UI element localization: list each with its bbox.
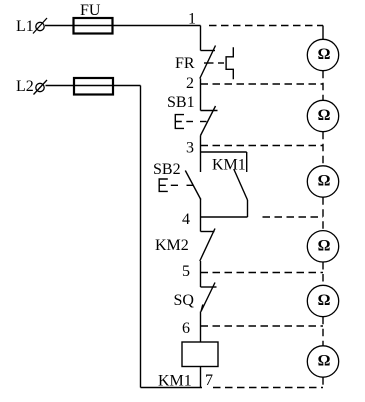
wire lamp6 to node7 dashed [322, 377, 324, 387]
wire lamp5 to lamp6 dashed [322, 317, 324, 346]
svg-text:5: 5 [182, 263, 190, 280]
wire SQ to coil [200, 312, 202, 343]
svg-text:Ω: Ω [318, 292, 331, 309]
svg-text:SQ: SQ [174, 292, 195, 309]
wire left bus vertical [140, 86, 142, 388]
svg-text:Ω: Ω [318, 46, 331, 63]
indicator lamp 4 [307, 231, 338, 262]
wire node3 dashed to right column [201, 145, 324, 147]
wire KM1 branch top [201, 152, 247, 172]
wire node4 dashed to right column [263, 216, 324, 218]
svg-text:7: 7 [205, 372, 213, 389]
svg-text:Ω: Ω [318, 353, 331, 370]
contact KM1 (NO auxiliary) [234, 170, 248, 218]
svg-text:Ω: Ω [318, 237, 331, 254]
wire lamp1 to lamp2 dashed [322, 71, 324, 101]
wire FR to SB1 [200, 79, 202, 111]
svg-text:2: 2 [186, 75, 194, 92]
svg-text:FU: FU [80, 2, 101, 19]
wire lamp3 to lamp4 dashed [322, 197, 324, 230]
wire node4 junction [201, 216, 248, 218]
terminal L2 [34, 80, 48, 95]
wire node6 dashed to right column [201, 325, 324, 327]
svg-text:SB2: SB2 [153, 161, 181, 178]
indicator lamp 1 [307, 39, 338, 70]
indicator lamp 3 [307, 166, 338, 197]
terminal L1 [33, 18, 47, 34]
wire bottom return [141, 387, 203, 389]
wire SB2 to node4 [200, 199, 202, 232]
wire node5 dashed to right column [201, 272, 324, 274]
svg-text:1: 1 [188, 11, 196, 28]
wire node2 dashed to right column [201, 83, 324, 85]
svg-text:4: 4 [182, 211, 190, 228]
wire node1 dashed to right column [209, 25, 323, 27]
contact FR (NC thermal relay contact) [200, 46, 234, 80]
wire right column top corner [322, 26, 324, 40]
svg-text:L1: L1 [16, 18, 34, 35]
indicator lamp 5 [307, 285, 338, 316]
wire L2 to left bus (through fuse) [46, 85, 141, 87]
svg-text:Ω: Ω [318, 107, 331, 124]
wire L1 to node 1 (through fuse) [45, 25, 201, 27]
contact SB1 (NC pushbutton) [175, 106, 217, 136]
wire node7 dashed to right column [213, 387, 323, 389]
fuse FU (L1) [74, 18, 113, 34]
fuse FU (L2) [74, 78, 113, 95]
indicator lamp 2 [307, 100, 338, 131]
svg-text:L2: L2 [16, 78, 34, 95]
svg-text:3: 3 [186, 140, 194, 157]
svg-text:KM2: KM2 [155, 237, 189, 254]
contact SB2 (NO pushbutton) [159, 171, 201, 200]
wire SB1 to SB2 [200, 136, 202, 173]
svg-text:KM1: KM1 [158, 373, 192, 390]
svg-text:6: 6 [182, 320, 190, 337]
svg-text:FR: FR [175, 55, 195, 72]
svg-text:KM1: KM1 [212, 157, 246, 174]
contact SQ (NC limit switch) [201, 283, 217, 312]
contact KM2 (NC interlock) [200, 229, 215, 262]
wire coil to node7 [200, 367, 202, 388]
wire bus node1 to FR [200, 26, 202, 51]
coil KM1 [182, 342, 218, 367]
wire lamp4 to lamp5 dashed [322, 262, 324, 285]
svg-text:SB1: SB1 [167, 94, 195, 111]
wire lamp2 to lamp3 dashed [322, 132, 324, 166]
wire KM2 to SQ [200, 261, 202, 287]
indicator lamp 6 [307, 346, 338, 377]
svg-text:Ω: Ω [318, 173, 331, 190]
